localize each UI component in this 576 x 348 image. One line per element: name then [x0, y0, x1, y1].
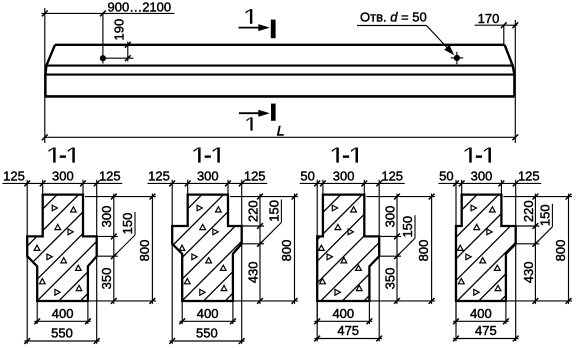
section variant 4 header 1-1: [469, 148, 471, 163]
section 4 dim line 220/430: [534, 194, 536, 304]
svg-text:475: 475: [337, 323, 359, 338]
svg-text:50: 50: [439, 169, 453, 184]
section variant 1 header 1-1: [53, 148, 55, 163]
dim 900...2100 line: [42, 12, 175, 14]
section 2 right side extension lines: [230, 196, 298, 198]
svg-text:150: 150: [537, 204, 552, 226]
beam elevation view: [42, 0, 519, 143]
section 4 right side extension lines: [503, 196, 572, 198]
svg-text:300: 300: [99, 206, 114, 228]
leader arrowhead: [444, 45, 454, 56]
section 2 bottom extension lines: [181, 302, 183, 324]
section cut mark top: label 1: [250, 9, 252, 24]
section 2 dim 550: [169, 340, 244, 342]
section 3 concrete hatch: [187, 191, 496, 305]
svg-text:550: 550: [196, 326, 218, 341]
beam chamfer band bottom edge: [45, 74, 514, 76]
section 3 dim 400: [314, 320, 372, 322]
svg-text:L: L: [277, 123, 285, 139]
section cut mark bottom: arrow: [239, 112, 261, 114]
beam left end slant: [45, 45, 55, 97]
section 1 bottom extension lines: [36, 302, 38, 324]
section 2 top dim extension lines: [171, 180, 173, 226]
section 1 dim 800: [151, 194, 153, 304]
section 4 concrete hatch: [345, 191, 576, 305]
svg-text:Отв. d = 50: Отв. d = 50: [360, 10, 427, 25]
dim 170 extension: [503, 25, 505, 45]
section 2 top dimension line: [148, 182, 268, 184]
svg-text:400: 400: [470, 306, 492, 321]
svg-text:300: 300: [471, 169, 493, 184]
section 3 bottom extension lines: [316, 302, 318, 324]
dim 190: [127, 42, 129, 62]
svg-text:150: 150: [266, 200, 281, 222]
beam near top-face edge: [46, 65, 512, 67]
section cut mark top: bar: [271, 20, 276, 39]
svg-text:800: 800: [553, 240, 568, 262]
section 3 dim 150 leader: [414, 215, 416, 238]
section 1 concrete hatch: [0, 191, 212, 305]
section cut mark bottom: label 1: [250, 117, 252, 130]
hole 1 dot: [100, 55, 106, 61]
svg-text:400: 400: [197, 306, 219, 321]
section 3 top dim extension lines: [316, 180, 318, 237]
svg-text:125: 125: [518, 169, 540, 184]
svg-text:125: 125: [244, 169, 266, 184]
section 2 dim 150 leader: [280, 199, 282, 222]
svg-text:350: 350: [99, 268, 114, 290]
svg-text:125: 125: [148, 169, 170, 184]
svg-text:190: 190: [112, 19, 127, 41]
svg-text:430: 430: [245, 262, 260, 284]
section 4 top dimension line: [439, 182, 542, 184]
section cut mark top: arrow: [239, 27, 262, 29]
svg-text:350: 350: [382, 268, 397, 290]
hole axis vertical line: [102, 13, 104, 63]
section variant 2 header 1-1: [198, 148, 200, 163]
section 3 top dimension line: [300, 182, 405, 184]
section 1 top dim extension lines: [26, 180, 28, 237]
svg-text:220: 220: [245, 200, 260, 222]
section 1 dim 150 leader: [134, 212, 136, 235]
svg-text:300: 300: [52, 169, 74, 184]
svg-text:800: 800: [137, 240, 152, 262]
svg-text:800: 800: [416, 240, 431, 262]
section 2 concrete hatch: [48, 191, 357, 305]
right extension line: [514, 20, 516, 143]
svg-text:430: 430: [521, 262, 536, 284]
dim L line: [45, 136, 516, 138]
section 4 bottom extension lines: [455, 302, 457, 324]
section 4 dim 800: [568, 194, 570, 304]
hole 2 dot with centermark: [456, 52, 458, 64]
svg-text:125: 125: [99, 169, 121, 184]
beam bottom edge: [45, 95, 514, 98]
section 4 dim 400: [453, 320, 509, 322]
section 1 dim line 300/350: [113, 194, 115, 304]
svg-text:125: 125: [381, 169, 403, 184]
dim 170: [475, 24, 518, 26]
section 1 dim 550: [24, 340, 99, 342]
left extension line: [44, 8, 46, 143]
section 1 dim 400: [34, 320, 90, 322]
section 4 top dim extension lines: [455, 180, 457, 226]
leader slant line: [427, 26, 453, 54]
section variant 3 header 1-1: [336, 148, 338, 163]
svg-text:800: 800: [279, 240, 294, 262]
section 2 dim 400: [179, 320, 235, 322]
section 4 dim 150 leader: [551, 204, 553, 227]
svg-text:170: 170: [478, 11, 500, 26]
leader underline: [357, 25, 427, 27]
section 2 dim line 220/430: [259, 194, 261, 304]
svg-text:150: 150: [400, 216, 415, 238]
section 1 right side extension lines: [85, 196, 156, 198]
svg-text:150: 150: [120, 213, 135, 235]
svg-text:550: 550: [51, 326, 73, 341]
svg-text:125: 125: [3, 169, 25, 184]
section 3 dim 475: [314, 338, 382, 340]
beam top edge: [55, 44, 505, 46]
hole 1 horizontal line: [103, 57, 134, 59]
svg-text:900…2100: 900…2100: [108, 0, 172, 14]
svg-text:50: 50: [300, 169, 314, 184]
section 4 dim 475: [453, 338, 518, 340]
section 3 right side extension lines: [366, 196, 435, 198]
section 2 dim 800: [294, 194, 296, 304]
svg-text:220: 220: [521, 200, 536, 222]
svg-text:400: 400: [332, 306, 354, 321]
section cut mark bottom: bar: [271, 104, 276, 121]
section 1 top dimension line: [3, 182, 123, 184]
svg-text:300: 300: [382, 206, 397, 228]
section 3 dim line 300/350: [396, 194, 398, 304]
svg-text:300: 300: [333, 169, 355, 184]
svg-text:475: 475: [475, 323, 497, 338]
section 3 dim 800: [431, 194, 433, 304]
svg-text:300: 300: [197, 169, 219, 184]
beam right end slant: [505, 45, 515, 97]
svg-text:400: 400: [52, 306, 74, 321]
